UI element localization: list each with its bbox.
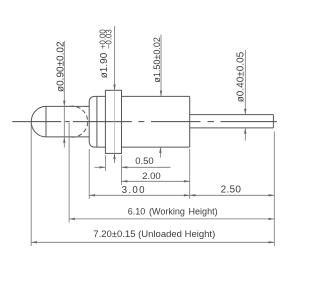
- dia 1.90 leader below flange: [114, 153, 116, 163]
- svg-text:2.00: 2.00: [142, 171, 161, 182]
- arrow 3.00 left: [89, 194, 95, 196]
- dia 1.50 leader bottom: [159, 147, 161, 157]
- dim line 2.50: [190, 194, 275, 196]
- extension line flange left: [104, 155, 106, 171]
- tail top edge: [190, 114, 274, 116]
- flange: [105, 90, 121, 153]
- part outline group: [31, 90, 273, 153]
- svg-text:−0.03: −0.03: [105, 29, 114, 49]
- arrow 3.00 right: [184, 194, 190, 196]
- arrow 6.10 right: [269, 218, 275, 220]
- arrow dia0.90 bottom: [63, 137, 65, 143]
- dia 1.50 leader top: [160, 35, 162, 97]
- svg-text:ø0.90±0.02: ø0.90±0.02: [55, 41, 66, 92]
- svg-text:7.20±0.15 (Unloaded Height): 7.20±0.15 (Unloaded Height): [93, 229, 215, 240]
- extension line tail right: [273, 132, 275, 247]
- tail bottom edge: [190, 127, 274, 129]
- dia 1.90 leader through flange: [114, 90, 116, 153]
- dim line 3.00: [89, 194, 190, 196]
- svg-text:ø1.50±0.02: ø1.50±0.02: [152, 37, 162, 82]
- dim line 2.00: [122, 180, 190, 182]
- svg-text:6.10 (Working Height): 6.10 (Working Height): [128, 207, 218, 217]
- arrowheads: [31, 85, 274, 244]
- svg-text:3.00: 3.00: [122, 185, 146, 196]
- extension line 7.20 left: [30, 122, 32, 246]
- arrow dia0.90 top: [63, 101, 65, 107]
- barrel top edge: [122, 95, 190, 97]
- arrow dia1.50 bottom: [159, 147, 161, 153]
- barrel right edge: [189, 96, 191, 147]
- arrow dia0.40 bottom: [244, 128, 246, 134]
- extension line flange right: [121, 155, 123, 185]
- dim line 0.50 right with trail: [122, 166, 171, 168]
- extension line barrel right: [189, 149, 191, 199]
- barrel nose: [89, 96, 105, 147]
- extension line 3.00 left: [88, 149, 90, 199]
- arrow 7.20 left: [31, 241, 37, 243]
- arrow 7.20 right: [269, 241, 275, 243]
- arrow 2.50 left: [190, 194, 196, 196]
- centerline: [12, 121, 277, 123]
- svg-text:ø1.90: ø1.90: [99, 52, 110, 78]
- arrow dia0.40 top: [244, 109, 246, 115]
- dimension graphics: [31, 26, 274, 246]
- arrow 0.50 right: [122, 166, 128, 168]
- dia 1.90 leader: [114, 26, 116, 90]
- tail right edge: [272, 115, 274, 128]
- plunger hidden head arc: [70, 106, 88, 137]
- arrow 0.50 left: [100, 166, 106, 168]
- arrow dia1.90 top: [113, 85, 115, 91]
- arrow 2.00 right: [184, 180, 190, 182]
- extension line 6.10 left: [68, 123, 70, 223]
- plunger top edge: [46, 105, 89, 107]
- dia 0.40 leader top: [244, 50, 246, 115]
- label dia 1.90 with tolerance: [98, 29, 113, 79]
- arrow 2.00 left: [122, 180, 128, 182]
- svg-text:0.50: 0.50: [135, 156, 154, 167]
- arrow dia1.50 top: [160, 91, 162, 97]
- arrow 2.50 right: [269, 194, 275, 196]
- dim line 0.50 left arrow tail: [95, 166, 106, 168]
- plunger bottom edge: [46, 136, 89, 138]
- plunger tangent line: [45, 106, 47, 136]
- plunger dome: [31, 106, 46, 137]
- svg-text:ø0.40±0.05: ø0.40±0.05: [236, 51, 247, 102]
- svg-text:2.50: 2.50: [221, 185, 242, 196]
- dia 0.40 leader bottom: [244, 128, 246, 141]
- arrow 6.10 left: [69, 218, 75, 220]
- barrel bottom edge: [122, 146, 190, 148]
- barrel nose crimp line: [96, 96, 98, 147]
- dia 0.90 leader: [63, 41, 65, 148]
- arrow dia1.90 bottom: [113, 153, 115, 159]
- dim line 6.10: [69, 218, 274, 220]
- dim line 7.20: [31, 241, 274, 243]
